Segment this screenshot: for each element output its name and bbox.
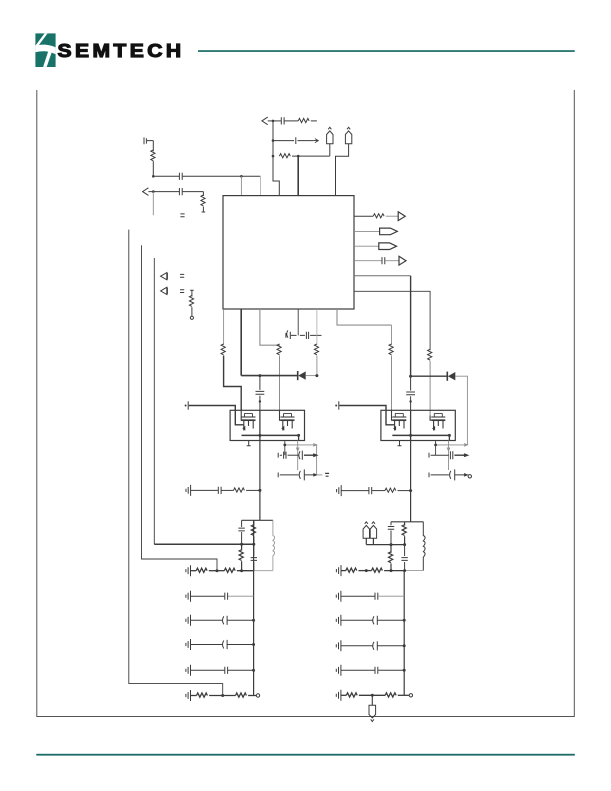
wire phase L down <box>259 441 261 521</box>
resistor R8 <box>277 344 281 410</box>
wire <box>240 176 242 195</box>
wire <box>150 140 153 142</box>
terminal VIN L <box>185 401 244 425</box>
resistor R15 <box>239 544 243 570</box>
ground G9 <box>336 565 341 576</box>
content frame right <box>574 90 575 717</box>
node N29 <box>365 569 368 572</box>
bus R <box>403 571 405 696</box>
arrow TP3 <box>161 287 168 294</box>
capacitor C3 <box>180 214 184 217</box>
resistor R7 <box>221 309 241 410</box>
net flag F2 <box>379 243 397 250</box>
resistor R17 <box>389 545 393 571</box>
ground G3 <box>186 565 191 576</box>
capacitor C20 <box>251 544 257 570</box>
wire <box>273 121 279 196</box>
resistor R18 <box>191 568 225 572</box>
wire <box>306 375 317 377</box>
node N32 <box>403 619 406 622</box>
capacitor C12 bootstrap R <box>406 376 415 410</box>
wire <box>296 441 299 471</box>
wire phase L <box>259 410 261 440</box>
wire bst L <box>241 375 298 377</box>
resistor R16 <box>402 522 406 545</box>
node N20 <box>252 543 255 546</box>
Semtech logo mark <box>35 33 55 67</box>
capacitor C19 <box>238 520 244 544</box>
capacitor C30 <box>341 667 404 674</box>
node N17 <box>258 489 261 492</box>
resistor R11 <box>428 349 432 415</box>
arrow TP1 <box>143 188 149 196</box>
capacitor C6 <box>268 117 284 124</box>
wire sense mid R <box>366 544 404 546</box>
capacitor C24 <box>191 616 254 625</box>
ground G2 <box>337 485 342 496</box>
net flag B2 <box>370 522 376 545</box>
wire bst R <box>411 375 448 377</box>
node N3 <box>152 190 155 193</box>
node N14 <box>448 434 451 437</box>
node N34 <box>403 669 406 672</box>
capacitor C26 <box>191 667 254 674</box>
buffer A1 <box>398 212 405 221</box>
arrow TP4 <box>262 117 268 125</box>
resistor R14 <box>251 520 255 544</box>
wire <box>316 445 318 475</box>
wire <box>259 176 261 195</box>
wire sense mid L <box>154 543 254 545</box>
wire <box>298 435 300 440</box>
capacitor C10 <box>300 332 322 339</box>
capacitor C21 <box>388 522 394 545</box>
wire <box>447 441 450 471</box>
wire source bus L <box>242 434 299 436</box>
resistor R6 <box>354 214 398 218</box>
capacitor C8 <box>354 257 399 264</box>
capacitor C9 <box>286 330 297 339</box>
node N1 <box>152 175 155 178</box>
arrow TP2 <box>161 273 168 280</box>
node N28 <box>221 694 224 697</box>
capacitor C5 <box>180 290 184 293</box>
node N30 <box>390 569 393 572</box>
wire gate drive 2R <box>354 291 430 350</box>
inductor L2 <box>423 522 425 571</box>
net flag PVCC <box>327 127 333 156</box>
bus L <box>253 520 255 695</box>
node N22 <box>403 543 406 546</box>
node N13 <box>409 434 412 437</box>
op-amp U1 <box>223 196 354 309</box>
resistor R24 <box>341 693 385 697</box>
diode D2 <box>447 372 455 381</box>
ground G8 <box>186 690 191 701</box>
capacitor C28 <box>341 616 404 625</box>
node N12 <box>297 434 300 437</box>
node N31 <box>403 569 406 572</box>
capacitor C16 <box>429 469 471 480</box>
inductor block R : top wire <box>391 521 423 523</box>
capacitor C25 <box>191 640 254 649</box>
resistor R10 <box>389 325 393 410</box>
ground G10 <box>336 591 341 602</box>
capacitor C22 <box>401 545 407 571</box>
wire <box>404 570 423 572</box>
wire <box>254 570 273 572</box>
capacitor C2 <box>148 188 203 195</box>
content frame bottom <box>36 716 575 717</box>
node N7 <box>297 155 300 158</box>
ground G11 <box>336 615 341 626</box>
wire VOUT1 sense <box>142 245 218 570</box>
net flag B3 <box>369 695 376 721</box>
header rule <box>198 50 575 52</box>
resistor R25 <box>385 693 412 697</box>
resistor R23 <box>372 568 405 572</box>
wire phase R down <box>410 441 412 522</box>
stub R <box>398 441 402 446</box>
ground G6 <box>186 639 191 650</box>
transistor Q4 <box>430 413 445 430</box>
resistor R13 <box>372 488 411 492</box>
inductor L1 <box>273 520 275 570</box>
node N5 <box>272 139 275 142</box>
node N16 <box>434 444 437 447</box>
ground G7 <box>186 665 191 676</box>
capacitor C7 <box>273 137 318 144</box>
capacitor C29 <box>341 641 404 650</box>
node N18 <box>409 489 412 492</box>
wire feedback <box>153 258 155 544</box>
capacitor C14 <box>278 469 329 480</box>
resistor R3 <box>189 290 193 319</box>
capacitor C11 bootstrap L <box>256 376 265 411</box>
ground G14 <box>336 690 341 701</box>
resistor R1 <box>151 141 155 177</box>
wire phase R <box>410 410 412 440</box>
net flag VCC <box>336 127 352 195</box>
resistor R9 <box>314 309 318 376</box>
wire <box>297 309 299 335</box>
capacitor C4 <box>180 274 184 277</box>
footer rule <box>36 754 575 756</box>
node N10 <box>409 375 412 378</box>
wire <box>448 435 450 440</box>
node N33 <box>403 644 406 647</box>
transistor Q1 <box>241 410 255 430</box>
transistor box Q1/Q2 <box>230 410 304 440</box>
terminal J1 <box>144 137 150 144</box>
ground G5 <box>186 615 191 626</box>
ground G12 <box>336 640 341 651</box>
diode D1 <box>298 371 306 380</box>
transistor Q3 <box>392 410 407 430</box>
capacitor C1 <box>153 173 260 180</box>
ground G1 <box>186 485 191 496</box>
wire gate drive 1R <box>354 275 411 277</box>
wire gate drive 1L <box>240 309 242 376</box>
node N27 <box>252 669 255 672</box>
wire <box>354 230 380 232</box>
capacitor C13 <box>278 451 316 460</box>
capacitor C18 <box>341 487 371 494</box>
wire <box>435 441 437 456</box>
node N24 <box>240 569 243 572</box>
node N21 <box>390 543 393 546</box>
resistor R20 <box>191 693 236 697</box>
node N23 <box>216 569 219 572</box>
wire <box>455 376 467 445</box>
node N6 <box>272 155 275 158</box>
resistor R22 <box>341 568 372 572</box>
wire <box>284 441 286 456</box>
wire source bus R <box>392 434 449 436</box>
wire <box>285 444 317 447</box>
node N11 <box>258 434 261 437</box>
node N2 <box>240 175 243 178</box>
net flag B1 <box>363 522 369 545</box>
wire VOUT2 sense <box>129 230 223 696</box>
wire <box>297 156 299 196</box>
resistor R21 <box>236 693 260 697</box>
wire <box>260 309 280 345</box>
inductor block L : top wire <box>242 519 273 521</box>
wire <box>436 444 468 447</box>
stub L <box>247 441 251 446</box>
resistor R12 <box>222 488 260 492</box>
capacitor C17 <box>191 487 222 494</box>
wire <box>152 192 154 216</box>
capacitor C23 <box>191 593 254 600</box>
node N8 <box>258 374 261 377</box>
net flag F1 <box>380 228 398 235</box>
content frame left <box>36 90 37 717</box>
transistor box Q3/Q4 <box>381 410 455 440</box>
resistor R5 <box>279 154 329 158</box>
terminal VIN R <box>335 401 394 425</box>
node N19 <box>240 543 243 546</box>
ground G4 <box>186 591 191 602</box>
resistor R4 <box>285 118 317 122</box>
node N9 <box>315 374 318 377</box>
node N4 <box>272 120 275 123</box>
buffer A2 <box>399 256 406 265</box>
transistor Q2 <box>280 410 295 430</box>
node N26 <box>252 643 255 646</box>
resistor R2 <box>201 192 205 212</box>
svg-text:SEMTECH: SEMTECH <box>58 40 185 61</box>
resistor R19 <box>224 568 253 572</box>
node N25 <box>252 619 255 622</box>
wire <box>337 309 392 325</box>
ground G13 <box>336 665 341 676</box>
node N15 <box>283 444 286 447</box>
capacitor C27 <box>341 593 404 600</box>
wire <box>354 245 379 247</box>
node N35 <box>371 694 374 697</box>
capacitor C15 <box>429 451 467 459</box>
